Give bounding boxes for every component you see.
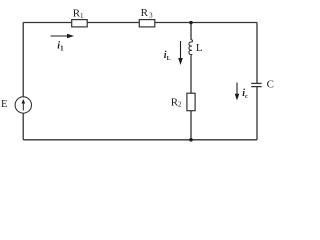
- wire right vertical lower: [256, 87, 258, 140]
- wire left vertical lower: [22, 113, 24, 140]
- svg-text:L: L: [196, 42, 203, 54]
- resistor R3: [139, 20, 155, 27]
- wire bottom: [23, 139, 257, 141]
- wire right vertical upper: [256, 23, 258, 84]
- current arrow i1: [51, 34, 75, 38]
- svg-text:R3: R3: [141, 7, 154, 19]
- wire top-left segment: [23, 22, 71, 24]
- svg-text:E: E: [1, 99, 7, 110]
- wire R3 to node A: [155, 22, 191, 24]
- inductor L: [189, 40, 193, 57]
- wire middle branch lower: [190, 111, 192, 140]
- svg-text:i1: i1: [57, 41, 64, 53]
- svg-text:R2: R2: [171, 96, 182, 108]
- wire middle branch upper: [190, 23, 192, 40]
- node B (bottom junction): [189, 138, 193, 142]
- wire node A to top-right corner: [191, 22, 257, 24]
- svg-text:iL: iL: [164, 50, 171, 62]
- wire between R1 and R3: [87, 22, 139, 24]
- capacitor C: [251, 83, 261, 86]
- resistor R1: [72, 20, 88, 27]
- svg-text:C: C: [267, 78, 274, 90]
- wire middle branch between L and R2: [190, 56, 192, 93]
- svg-text:R1: R1: [73, 8, 84, 20]
- resistor R2: [187, 93, 195, 111]
- current arrow ic: [235, 83, 240, 101]
- current arrow iL: [178, 41, 183, 65]
- voltage source E: [15, 97, 31, 113]
- wire left vertical upper: [22, 23, 24, 97]
- node A (top junction): [189, 21, 192, 24]
- svg-text:ic: ic: [242, 88, 248, 100]
